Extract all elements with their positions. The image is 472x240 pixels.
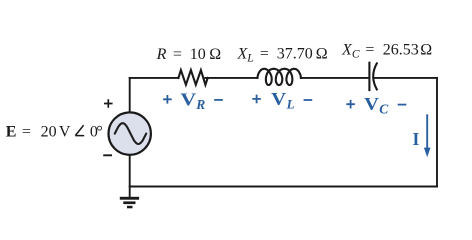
svg-text:L: L bbox=[286, 96, 295, 111]
svg-text:R=10Ω: R=10Ω bbox=[156, 46, 222, 63]
ac source sine wave bbox=[115, 123, 146, 144]
minus sign of VR (blue) bbox=[214, 99, 223, 101]
source polarity plus sign bbox=[104, 99, 113, 108]
wire top segment C (inductor to capacitor) bbox=[301, 77, 369, 79]
svg-text:I: I bbox=[413, 129, 420, 149]
svg-text:0°: 0° bbox=[90, 123, 103, 140]
wire left vertical upper (corner to source top) bbox=[129, 78, 131, 113]
ground symbol bbox=[120, 197, 139, 209]
svg-text:C: C bbox=[379, 101, 389, 116]
svg-text:V: V bbox=[364, 94, 379, 114]
wire left vertical lower (source bottom to ground) bbox=[129, 155, 131, 198]
wire bottom segment bbox=[130, 186, 437, 188]
plus sign of VC (blue) bbox=[346, 100, 355, 109]
ac source E circle bbox=[109, 112, 151, 154]
source polarity minus sign bbox=[103, 154, 112, 156]
wire right side vertical bbox=[436, 78, 438, 187]
wire top segment A (left corner to resistor) bbox=[130, 77, 179, 79]
svg-text:XL=37.70Ω: XL=37.70Ω bbox=[237, 46, 328, 65]
plus sign of VR (blue) bbox=[163, 95, 172, 104]
wire top segment B (resistor to inductor) bbox=[205, 77, 257, 79]
svg-text:V: V bbox=[271, 89, 286, 109]
angle symbol in E label bbox=[75, 125, 84, 135]
capacitor C right curved plate bbox=[373, 63, 377, 89]
wire top segment D (capacitor to right corner) bbox=[373, 77, 437, 79]
current I arrow bbox=[426, 114, 428, 149]
minus sign of VC (blue) bbox=[398, 104, 407, 106]
svg-text:V: V bbox=[180, 89, 196, 109]
plus sign of VL (blue) bbox=[252, 95, 261, 104]
capacitor C left plate bbox=[368, 63, 370, 90]
svg-text:XC=26.53Ω: XC=26.53Ω bbox=[341, 42, 432, 61]
inductor L coil bbox=[257, 69, 301, 85]
svg-text:E=20V: E=20V bbox=[6, 123, 71, 140]
resistor R bbox=[178, 70, 207, 85]
svg-text:R: R bbox=[195, 97, 205, 112]
minus sign of VL (blue) bbox=[304, 99, 313, 101]
